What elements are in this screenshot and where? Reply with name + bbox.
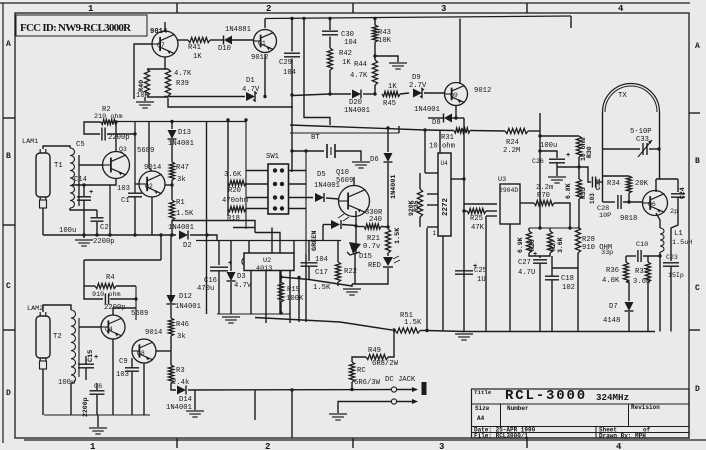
wire C2 top	[96, 210, 98, 217]
wire Q7 emitter to divider	[164, 57, 166, 69]
svg-text:BT: BT	[311, 134, 320, 142]
wire R51 to ground	[427, 331, 464, 332]
svg-text:R44: R44	[354, 61, 367, 69]
wire SW1 row2 right	[289, 183, 307, 185]
svg-text:100K: 100K	[286, 295, 304, 303]
R26 designator	[529, 239, 536, 251]
svg-text:R25: R25	[470, 215, 483, 223]
wire R30 to R33	[578, 157, 580, 179]
svg-text:6.9K: 6.9K	[517, 237, 524, 253]
wire Q6 emitter to L1	[656, 213, 660, 228]
wire U4 feed left	[424, 130, 426, 173]
svg-text:1.5K: 1.5K	[176, 210, 194, 218]
svg-text:1K: 1K	[193, 53, 202, 61]
sheet border bottom line	[24, 439, 706, 441]
wire U3 out to R70	[520, 202, 534, 204]
zener diode D3	[227, 272, 236, 281]
wire bus B right of R31	[470, 130, 505, 133]
svg-text:A: A	[6, 40, 11, 49]
svg-text:2200p: 2200p	[108, 134, 130, 142]
svg-text:104: 104	[344, 39, 357, 47]
wire R43 to R44 node	[374, 42, 376, 60]
wire C9 top	[131, 358, 133, 368]
wire D6 to 330R node	[387, 163, 389, 227]
svg-text:U4: U4	[441, 160, 449, 167]
wire Q4 emitter	[112, 339, 114, 415]
wire C30 top	[329, 19, 331, 31]
wire D1 node to D20	[293, 94, 351, 96]
transformer T1 secondary line	[78, 155, 80, 206]
wire D3 top	[230, 241, 232, 272]
wire R37 top stub	[647, 256, 649, 262]
wire trimmer line right	[649, 148, 659, 150]
transistor Q3	[103, 152, 130, 179]
SW1 pole dot row2 left	[273, 182, 277, 186]
U4 value 2272	[442, 197, 450, 216]
wire R41 to D10	[210, 39, 223, 41]
junction R19 top wire	[279, 275, 282, 278]
resistor R20	[228, 180, 246, 185]
svg-text:A4: A4	[477, 415, 485, 422]
wire Q10 emitter down	[355, 211, 357, 254]
svg-text:+: +	[566, 152, 570, 160]
svg-text:R42: R42	[339, 50, 352, 58]
wire Q4 base	[79, 326, 101, 328]
wire C24 bottom	[671, 198, 678, 262]
diode D10	[224, 36, 233, 45]
svg-text:100u: 100u	[59, 227, 76, 235]
wire U4 top pin	[439, 131, 441, 153]
junction bus x540	[538, 226, 541, 229]
transistor Q9	[445, 83, 468, 106]
svg-text:R34: R34	[607, 180, 620, 188]
svg-text:R19: R19	[287, 286, 300, 294]
svg-text:6.8K: 6.8K	[565, 183, 572, 199]
transistor Q7	[152, 31, 178, 57]
svg-text:Q7: Q7	[157, 42, 165, 49]
wire D20 to R45 node	[363, 93, 376, 95]
wire T2 bottom	[70, 383, 72, 415]
svg-text:L1: L1	[674, 230, 683, 238]
svg-text:10P: 10P	[599, 212, 611, 220]
svg-text:R30: R30	[586, 146, 593, 158]
wire SW1 row3 right	[289, 208, 307, 210]
resistor R49	[366, 354, 388, 359]
resistor R44	[372, 60, 377, 85]
ground below R40	[136, 102, 154, 108]
node supply vertical x540	[539, 113, 541, 228]
wire U2 pin stub a	[248, 241, 250, 254]
wire battery right to ground	[335, 151, 361, 161]
junction R30 R33	[577, 165, 580, 168]
diode D6	[384, 153, 393, 162]
junction jack line x292	[290, 388, 293, 391]
svg-text:1K: 1K	[388, 83, 397, 91]
wire C24 top	[677, 179, 679, 192]
junction R2 Q3	[114, 120, 117, 123]
capacitor C1	[128, 193, 142, 197]
junction L1 C10	[658, 254, 661, 257]
wire R51 right	[420, 330, 427, 332]
ground C26	[548, 177, 566, 183]
wire staircase from R1 node	[172, 221, 255, 233]
TX dome outer arc	[603, 84, 660, 113]
ground below C14	[75, 240, 93, 246]
svg-text:3.6K: 3.6K	[557, 237, 564, 253]
resistor R24	[505, 128, 528, 133]
svg-text:2904D: 2904D	[499, 187, 518, 194]
svg-text:6R8/2W: 6R8/2W	[372, 360, 399, 368]
svg-text:RCL-3000: RCL-3000	[505, 388, 587, 404]
wire C15 top	[85, 356, 87, 364]
svg-text:C17: C17	[315, 269, 328, 277]
svg-text:LAM2: LAM2	[27, 305, 43, 313]
svg-text:C30: C30	[341, 31, 354, 39]
diode D14	[177, 386, 186, 395]
junction rail x304	[302, 17, 305, 20]
resistor R51	[395, 328, 420, 333]
wire U2 bottom pin c	[279, 271, 281, 315]
svg-text:R27: R27	[550, 239, 557, 251]
wire C16 top	[218, 241, 220, 266]
wire ground stem	[83, 235, 85, 238]
svg-text:2272: 2272	[442, 197, 450, 216]
junction rail C5	[133, 132, 136, 135]
wire C29 rail down segment	[291, 95, 293, 172]
resistor R19	[278, 282, 283, 302]
capacitor C23	[663, 263, 679, 266]
title block line above file row	[472, 432, 690, 434]
svg-text:R26: R26	[529, 239, 536, 251]
svg-text:Q8: Q8	[137, 350, 145, 357]
wire Q1 emitter to rail	[264, 19, 266, 29]
junction bus x110	[108, 233, 111, 236]
junction R1 D2	[170, 233, 173, 236]
DC jack contact 1	[391, 387, 396, 392]
resistor R18	[228, 206, 246, 211]
svg-text:R21: R21	[367, 235, 380, 243]
junction antenna line tap	[159, 233, 162, 236]
wire U4 bottom pin	[442, 236, 444, 332]
wire C26 node run	[557, 166, 579, 168]
wire LED ground bus	[281, 277, 352, 286]
junction bus D13	[170, 120, 173, 123]
transistor Q6	[643, 191, 668, 216]
wire Q7 base to ground rail	[134, 44, 152, 99]
svg-text:C23: C23	[666, 254, 678, 261]
zone tick left A-B	[3, 117, 15, 119]
wire to ground G1	[144, 97, 146, 101]
wire R35 top	[419, 173, 421, 189]
svg-text:2200p: 2200p	[82, 397, 89, 417]
wire C14 stub down	[83, 201, 85, 236]
wire C29 bottom	[291, 59, 293, 96]
wire R37 bottom	[647, 282, 649, 332]
svg-text:D15: D15	[359, 253, 372, 261]
wire U2 bottom pin a	[250, 271, 252, 315]
resistor R4	[95, 283, 116, 288]
wire battery left	[292, 150, 324, 152]
R30 value 10 ohm	[580, 137, 587, 161]
capacitor C8	[105, 294, 108, 305]
svg-text:3.6K: 3.6K	[224, 171, 242, 179]
wire x540 to R30	[540, 135, 579, 137]
capacitor C31	[592, 177, 595, 188]
wire chain top	[170, 234, 172, 295]
wire bus elbow to Q2 collector	[149, 122, 152, 172]
wire U3 upper input	[464, 203, 497, 205]
node right rail x135	[134, 122, 136, 194]
transformer T2 winding	[71, 310, 76, 383]
wire R27 top stub	[549, 228, 551, 231]
svg-text:47K: 47K	[471, 224, 485, 232]
wire R49 right up	[388, 331, 394, 358]
wire C28 to Q6 base	[623, 201, 643, 203]
node lower bus to R51	[255, 318, 392, 331]
resistor R39	[165, 69, 170, 96]
wire Q10 collector stub	[353, 177, 355, 186]
svg-text:470u: 470u	[197, 285, 214, 293]
svg-text:2.2M: 2.2M	[503, 147, 520, 155]
svg-text:4013: 4013	[256, 265, 272, 273]
wire C8 line	[84, 286, 103, 299]
SW1 pole dot row1 left	[273, 168, 277, 172]
wire R28 bottom	[577, 253, 579, 332]
capacitor C2	[91, 218, 104, 221]
lamp LAM2	[36, 312, 50, 369]
capacitor C15	[78, 354, 98, 368]
wire R33 down	[578, 199, 580, 229]
transformer T1 primary winding	[70, 148, 75, 208]
svg-text:R1: R1	[176, 199, 185, 207]
resistor R2	[101, 119, 117, 124]
svg-text:9014: 9014	[144, 164, 161, 172]
wire D2 line	[157, 234, 176, 236]
wire LED ground stub	[351, 284, 353, 287]
wire C14 top wire	[72, 184, 110, 186]
svg-text:R31: R31	[441, 134, 454, 142]
wire green feed	[322, 225, 324, 241]
resistor R28	[575, 227, 580, 253]
capacitor C30	[322, 31, 338, 35]
svg-text:R37: R37	[635, 268, 648, 276]
wire SW1 row1 right	[289, 170, 307, 172]
wire C26 elbow	[540, 151, 557, 158]
wire C23 bottom	[670, 266, 672, 332]
capacitor C24	[671, 194, 685, 197]
R40 designator	[138, 80, 146, 92]
wire C28 left	[603, 201, 616, 203]
svg-text:Q4: Q4	[105, 326, 113, 333]
resistor R35	[417, 189, 422, 217]
wire C18 bottom	[551, 280, 553, 332]
diode D13	[168, 130, 177, 139]
diode D5	[315, 193, 324, 202]
junction x207 D2 wire	[205, 233, 208, 236]
svg-text:104: 104	[283, 69, 296, 77]
svg-text:1.5K: 1.5K	[394, 227, 402, 244]
resistor RC	[349, 362, 354, 382]
junction bus C2	[95, 233, 98, 236]
wire SW1 row1 left	[246, 170, 268, 172]
junction C8 right	[134, 297, 137, 300]
svg-text:C: C	[6, 282, 11, 291]
R30 designator	[586, 146, 593, 158]
junction D20 R44 R45	[373, 92, 376, 95]
junction x464 bus B	[462, 129, 465, 132]
node low bus y235	[43, 234, 157, 236]
resistor R27	[547, 231, 552, 253]
junction C14 top	[82, 183, 85, 186]
capacitor C25	[455, 263, 477, 274]
wire C5 right	[107, 133, 135, 135]
svg-text:4.7V: 4.7V	[242, 86, 260, 94]
svg-text:R43: R43	[378, 29, 391, 37]
svg-text:C1: C1	[121, 197, 130, 205]
wire U2 bottom pin e	[298, 278, 300, 323]
junction C1 bus	[133, 233, 136, 236]
wire Q6 collector up	[655, 179, 657, 192]
wire antenna bus elbow down	[83, 260, 85, 286]
junction battery SW1 rail	[304, 149, 307, 152]
wire SW right rail bottom	[305, 254, 307, 322]
wire Q9 collector to rail	[459, 19, 461, 85]
junction Q9 emitter D8	[454, 116, 457, 119]
svg-text:Revision: Revision	[631, 404, 660, 411]
capacitor C29	[284, 53, 300, 57]
C24 designator	[679, 187, 686, 199]
wire R51 node up	[426, 228, 428, 331]
wire R70 right	[554, 203, 570, 228]
wire R25 right	[486, 210, 497, 212]
wire ground stub near D14	[194, 390, 196, 410]
capacitor C18	[545, 276, 559, 280]
transformer T2 secondary line	[78, 318, 80, 377]
wire C2 bottom	[96, 222, 98, 235]
wire SW1 row3 to D5	[289, 197, 314, 199]
wire D2 to U2 bus	[190, 235, 217, 241]
lamp LAM1	[36, 149, 50, 208]
wire C15 bottom	[85, 368, 87, 380]
svg-text:D12: D12	[179, 293, 192, 301]
zone tick bottom 2-3	[352, 438, 354, 448]
junction x464 U3 wire	[462, 209, 465, 212]
resistor R21	[385, 229, 390, 253]
ground DC jack	[329, 414, 347, 420]
capacitor C26	[549, 152, 570, 163]
R27 designator	[550, 239, 557, 251]
diode D2	[179, 231, 188, 240]
capacitor C9	[125, 368, 139, 371]
svg-text:LAM1: LAM1	[22, 138, 38, 146]
wire R49 left to RC	[352, 357, 366, 362]
svg-text:D2: D2	[183, 242, 192, 250]
wire R3 to D14	[171, 383, 176, 390]
wire staircase tick	[233, 227, 255, 229]
svg-text:+: +	[89, 189, 93, 197]
svg-text:Number: Number	[507, 405, 529, 412]
node vertical x110	[109, 185, 111, 235]
svg-text:4.0K: 4.0K	[602, 277, 620, 285]
wire rail elbow down right end	[570, 16, 572, 28]
wire R46 to R3	[170, 336, 172, 365]
wire dome right side	[659, 112, 661, 179]
wire Q9 emitter	[455, 105, 457, 118]
node U2 bus y240	[196, 240, 341, 242]
junction rail C30	[328, 17, 331, 20]
svg-text:3k: 3k	[177, 176, 186, 184]
wire antenna bus	[84, 259, 161, 261]
wire ground bus stub	[97, 415, 99, 427]
svg-text:6R6/3W: 6R6/3W	[354, 379, 381, 387]
svg-text:3: 3	[441, 4, 446, 14]
svg-text:103: 103	[116, 371, 129, 379]
svg-text:4.7K: 4.7K	[350, 72, 368, 80]
diode D20	[352, 90, 361, 99]
wire SW1 row4 left	[246, 208, 268, 210]
svg-text:470ohm: 470ohm	[222, 197, 248, 205]
ground U2	[222, 317, 240, 323]
junction R19 bottom	[279, 311, 282, 314]
title block size/number divider	[500, 404, 502, 427]
junction R43 R44	[373, 54, 376, 57]
svg-text:D6: D6	[370, 156, 379, 164]
wire trimmer line left	[603, 148, 641, 150]
wire R43 top	[374, 19, 376, 26]
svg-text:Q9: Q9	[450, 92, 458, 99]
wire vertical x207	[206, 122, 208, 315]
ground right of D14	[186, 411, 204, 417]
wire Q2 base tap	[135, 183, 139, 185]
wire 330R left	[356, 226, 364, 228]
zone tick top 1-2	[176, 3, 178, 13]
svg-text:4: 4	[618, 4, 624, 14]
wire U4 left pin d	[427, 226, 438, 228]
wire Q2 emitter down	[151, 197, 153, 235]
wire U2 pin stub c	[271, 228, 273, 254]
wire U3 lower-left to ground bus	[485, 216, 487, 332]
ground lower-left	[89, 428, 107, 434]
wire R34 top elbow	[603, 175, 630, 177]
resistor R40	[144, 69, 149, 96]
wire C27 stub	[539, 256, 541, 258]
svg-text:R24: R24	[506, 139, 519, 147]
LED RED D-red	[383, 256, 400, 267]
node SW1 right rail	[305, 151, 307, 254]
junction bus x570	[568, 226, 571, 229]
transistor Q10	[339, 186, 370, 217]
zone tick left C-D	[3, 329, 15, 331]
junction RC jack line	[350, 388, 353, 391]
capacitor C27	[533, 251, 547, 263]
ground LED cluster	[343, 289, 361, 295]
resistor R47	[169, 162, 174, 180]
resistor R22	[335, 262, 340, 282]
svg-text:R39: R39	[176, 80, 189, 88]
wire C31 to dome	[597, 181, 603, 183]
svg-text:D3: D3	[237, 273, 246, 281]
svg-text:C27: C27	[518, 259, 531, 267]
wire RC bottom	[351, 382, 353, 389]
svg-text:C10: C10	[636, 241, 648, 249]
svg-text:RED: RED	[368, 262, 381, 270]
wire stub x255	[254, 390, 256, 420]
transistor Q4	[101, 315, 125, 339]
junction bus R20 rail	[226, 118, 229, 121]
wire R47 to R1	[171, 180, 173, 200]
svg-text:1U: 1U	[477, 276, 486, 284]
ground right cluster	[455, 334, 473, 340]
